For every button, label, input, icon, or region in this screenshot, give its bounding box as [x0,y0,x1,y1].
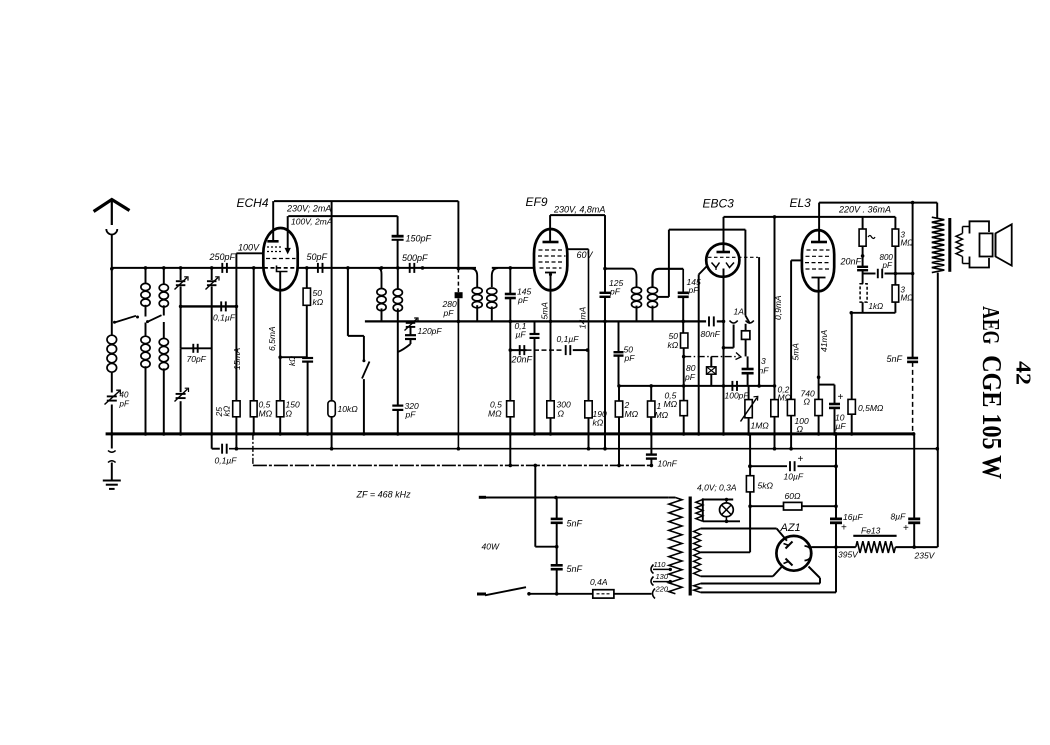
dots second rail [235,447,239,451]
capacitor 125pF IF2 [600,292,611,294]
wire B+ second rail [211,434,213,449]
resistor 5k bleeder [746,476,753,492]
svg-text:0,4A: 0,4A [590,577,608,587]
wire AZ1 heater lead A [701,583,820,585]
wire 150pF lead [397,216,399,236]
IF2 primary bottom lead [636,306,638,322]
resistor 50k AVC [681,333,688,348]
svg-text:5mA: 5mA [791,343,801,361]
wire filter caps mid link [535,546,556,548]
svg-text:Ω: Ω [804,397,811,407]
svg-text:0,5MΩ: 0,5MΩ [858,403,884,413]
wire EF9 anode/IF2 feed with 125pF [604,215,606,293]
svg-text:+: + [903,523,909,534]
svg-text:120pF: 120pF [418,326,443,336]
capacitor 145pF IF2 sec [678,291,689,294]
svg-text:pF: pF [624,353,636,363]
capacitor 120pF [405,334,416,336]
wire IF2 secondary top lead (thick) [653,269,684,287]
capacitor 50pF det [614,351,624,353]
svg-text:nF: nF [759,366,770,376]
svg-text:Ω: Ω [797,424,804,434]
wire AZ1 heater lead B [701,591,836,593]
wire EL3 grid leak 0.5M [851,313,853,400]
wire heater 4V top lead [703,499,733,501]
inductor IF1 secondary [487,288,497,294]
primary taps 110/130/220 [651,565,654,574]
svg-text:42: 42 [1012,361,1036,385]
svg-text:pF: pF [609,287,621,297]
wire AF detector line [619,385,775,387]
wire ECH4 anode supply line 230V [274,200,458,202]
capacitor 10uF PSU [789,461,791,471]
capacitor 10nF [646,453,657,455]
wire oscillator grid (thick) [347,268,349,336]
wire 1M AF resistor [650,386,652,401]
svg-text:CGE 105 W: CGE 105 W [977,355,1007,479]
svg-text:pF: pF [688,285,700,295]
wire IF2 secondary to EBC3 grid [669,229,746,231]
antenna symbol [94,200,130,212]
svg-text:220: 220 [655,584,669,593]
dots ground bus [110,432,114,436]
speaker voice coil winding [956,233,963,256]
svg-text:+: + [841,523,847,534]
speaker cone [996,224,1012,265]
output transformer primary [932,217,945,272]
svg-text:Ω: Ω [286,409,293,419]
svg-text:pF: pF [517,295,529,305]
inductor L3b [159,338,168,345]
wire 5k bleeder branch [749,434,751,476]
capacitor 5nF boucherot [907,357,918,360]
wire 10nF rail cap [650,434,652,455]
wire heater 4V bottom lead [703,520,740,522]
resistor 2M AF grid [615,401,622,417]
svg-text:EL3: EL3 [790,196,812,210]
resistor 740R EL3 cathode [815,399,822,415]
wire EF9 anode supply line [550,214,605,216]
svg-text:100V: 100V [238,243,260,253]
EL3 cathode chain 740R [818,278,820,400]
wire RF coil 2 top [145,268,147,284]
svg-text:41mA: 41mA [819,329,829,352]
resistor 1k tone upper [859,229,866,246]
capacitor 0.1uF AVC [530,333,540,335]
wire ECH4 screen line 100V,2mA [288,215,397,217]
wire RF coil 3 bottom section [163,322,165,338]
capacitor 70pF [192,344,194,353]
wire EF9 screen lead [566,248,589,250]
wire 70pF trimmer line [181,347,212,349]
resistor 3M tone upper [892,229,899,246]
capacitor 145pF IF1 [505,293,516,296]
tube EBC3 [706,244,739,277]
inductor L3a [159,284,168,291]
resistor 0.2M EBC3 anode load [771,400,778,417]
svg-text:kΩ: kΩ [222,405,232,416]
secondary HT winding [694,529,701,577]
tube EF9 [534,229,567,290]
svg-text:1MΩ: 1MΩ [751,421,770,431]
capacitor 5nF mains lower [551,564,563,567]
antenna down lead [111,235,113,269]
wire EF9 AVC cap 0.1uF branch [534,321,536,334]
EBC3 cathode chain [723,269,725,434]
80pF crossed-box capacitor [707,367,717,374]
pickup jack box [742,331,750,340]
svg-text:40: 40 [120,391,129,400]
wire antenna coil branch [111,269,113,335]
svg-text:395V: 395V [838,550,859,560]
capacitor 5nF mains upper [551,518,563,521]
inductor L2a [141,283,150,290]
wire PSU segment with 10uF [750,465,787,467]
capacitor 16uF [830,518,842,521]
svg-text:14mA: 14mA [578,306,588,329]
wire EBC3 diode lead [699,267,707,275]
svg-text:MΩ: MΩ [259,409,273,419]
potentiometer 1M volume [745,400,752,418]
wire EL3 grid-side lead [791,259,803,261]
pickup switch blade [744,230,746,316]
wire oscillator feedback line (thick) [365,320,706,322]
svg-text:80nF: 80nF [701,329,721,339]
capacitor 3nF tone [742,368,754,371]
transformer core [689,497,692,596]
svg-text:Fe13: Fe13 [861,526,881,536]
tube ECH4 [263,228,297,290]
wire EF9 screen dropper 190k [588,350,590,401]
wire EBC3 cathode to switch link [724,347,734,349]
resistor 100R EL3 screen [787,399,794,415]
svg-text:500pF: 500pF [402,253,428,263]
resistor 1M AF [648,401,655,417]
wire output transformer primary return [937,273,939,547]
svg-text:6,5mA: 6,5mA [267,326,277,351]
wire RF coil 3 top [163,268,165,284]
pickup switch contact left [730,321,738,324]
power transformer primary winding [669,498,682,594]
svg-text:0,1µF: 0,1µF [215,456,238,466]
svg-text:ECH4: ECH4 [237,196,269,210]
capacitor 0.1uF screen [565,345,567,355]
wire antenna mixer coupling (thick) [181,305,237,307]
trimmer padder [406,322,416,324]
trimmer capacitor var [176,393,186,395]
capacitor cathode bypass [302,357,313,359]
output transformer core [948,218,951,272]
wire boucherot 5nF branch [912,203,914,358]
wire mains bottom line [477,593,486,596]
wire 100V lead to ECH4 [236,252,264,254]
svg-text:AEG: AEG [977,306,1003,344]
svg-text:+: + [798,454,804,465]
svg-text:+: + [838,392,844,403]
svg-text:150pF: 150pF [406,234,432,244]
tube AZ1 rectifier [776,536,811,571]
svg-text:10nF: 10nF [658,459,678,469]
ECH4 anode lead [272,201,274,241]
pickup switch contact right [746,321,754,324]
svg-text:220V . 36mA: 220V . 36mA [838,205,891,215]
wire 16uF / heater junction branch [835,434,837,519]
svg-text:50pF: 50pF [307,252,328,262]
ECH4 cathode lead [279,272,281,401]
svg-text:1A: 1A [734,307,745,317]
trimmer capacitor T1 [176,280,186,282]
resistor 0.5M AVC [680,401,687,416]
dots PSU [554,496,558,500]
wire tone chain 1k/20nF/1k [862,217,864,229]
wire oscillator anode feed with 10k [331,201,333,401]
wire 3nF tone cap [747,356,749,369]
wire AVC chain 145pF/50k/0.5M [682,297,684,333]
svg-text:10kΩ: 10kΩ [338,404,359,414]
wire EBC3 anode line 220V [724,216,896,218]
resistor 50k [303,288,310,305]
svg-text:4,0V; 0,3A: 4,0V; 0,3A [697,483,737,493]
svg-text:40W: 40W [482,542,500,552]
svg-text:60Ω: 60Ω [785,491,801,501]
svg-text:MΩ: MΩ [901,294,914,303]
capacitor 50pF osc coupling [317,263,319,273]
inductor osc coil A [377,289,386,296]
resistor 0.5M EL3 grid leak [848,399,855,414]
inductor L2b [141,336,150,343]
oscillator wave switch [363,336,365,361]
svg-text:20nF: 20nF [840,257,862,267]
capacitor 8uF [908,518,920,521]
resistor 3M tone lower [892,285,899,302]
fuse 0.4A [593,590,614,598]
secondary 4V heater winding [696,500,703,522]
svg-text:µF: µF [836,421,847,431]
EF9 anode lead up [549,215,551,242]
svg-text:0,9mA: 0,9mA [773,295,783,320]
280pF padding capacitor (solid box) [455,292,463,298]
speaker frame [970,221,990,233]
wire EL3 anode to output transformer [819,202,937,204]
wire osc coil B [397,268,399,289]
capacitor 100pF AF [731,381,733,391]
capacitor 20nF screen [519,345,521,355]
svg-text:5kΩ: 5kΩ [758,481,774,491]
svg-text:5mA: 5mA [540,302,550,320]
volume pot 1M chain [748,386,750,400]
capacitor 0.1uF antenna coupling [220,301,222,311]
svg-text:15mA: 15mA [232,347,242,370]
svg-text:AZ1: AZ1 [780,522,801,534]
wire EL3 screen feed 100R [790,260,792,399]
svg-text:MΩ: MΩ [664,399,678,409]
wire 50k grid resistor branch [306,268,308,288]
resistor 300R EF9 cathode [547,401,554,418]
wire detector 50pF branch [618,321,620,352]
svg-text:250pF: 250pF [209,252,236,262]
capacitor 800pF [877,269,879,279]
band switch S1b [148,315,162,322]
wire IF2 primary top lead [605,268,631,270]
svg-text:ZF = 468 kHz: ZF = 468 kHz [356,490,412,500]
resistor 60R horizontal [784,502,802,510]
svg-text:kΩ: kΩ [288,356,297,366]
dots main junctions [110,267,114,271]
wire 8uF cap branch [913,434,915,519]
wire RF coil 2 bottom section [145,323,147,337]
svg-text:60V: 60V [577,250,594,260]
svg-text:5nF: 5nF [567,519,583,529]
svg-text:EF9: EF9 [526,195,548,209]
svg-text:kΩ: kΩ [313,297,324,307]
capacitor 0.1uF rail decoupling [221,444,223,454]
IF2 secondary bottom lead [652,306,654,322]
svg-text:pF: pF [405,410,417,420]
wire mains top line to transformer [479,496,486,499]
capacitor 500pF [409,263,411,273]
resistor 10k oscillator [328,401,335,417]
svg-text:MΩ: MΩ [625,409,639,419]
svg-text:10µF: 10µF [784,472,804,482]
capacitor 150pF [392,235,404,238]
svg-text:MΩ: MΩ [901,239,914,248]
inductor IF2 primary [632,287,642,293]
resistor 0.5M grid leak [250,401,257,417]
trimmer capacitor 40pF [107,395,117,397]
svg-text:110: 110 [654,560,667,569]
wire trimmer branch 1 [180,268,182,280]
wire HT winding centre tap [701,551,751,553]
svg-text:8µF: 8µF [891,512,907,522]
inductor IF1 primary [472,288,482,294]
capacitor 10uF cathode bypass [829,403,840,406]
svg-text:pF: pF [119,400,130,409]
wire HT winding bottom lead to AZ1 [701,575,773,577]
wire osc coil A [378,268,382,289]
tube EL3 [802,230,834,291]
inductor L1 antenna coil [107,335,117,344]
svg-text:Ω: Ω [558,409,565,419]
ground symbol [103,480,121,482]
svg-text:kΩ: kΩ [668,340,679,350]
svg-text:16µF: 16µF [843,512,863,522]
wire AVC dashed line with arrow [684,356,738,358]
wire filter cap chain 2x5nF [556,498,558,519]
svg-text:5nF: 5nF [887,354,903,364]
ECH4 screen lead [287,216,289,250]
wire EBC3 anode load 0.2M [774,217,776,400]
band switch S1a [115,316,137,323]
wire ECH4 cathode bypass branch [280,356,307,358]
svg-text:EBC3: EBC3 [703,197,735,211]
capacitor 20nF tone [857,266,868,268]
wire 100V screen feed with 25k [235,253,237,400]
svg-text:0,1µF: 0,1µF [557,334,580,344]
svg-text:pF: pF [684,372,696,382]
svg-text:20nF: 20nF [511,355,533,365]
wire ECH4 grid leak [253,268,255,401]
wire tone network bottom node [851,312,895,314]
svg-text:0,1µF: 0,1µF [213,313,236,323]
resistor 190k screen dropper [585,401,592,418]
wire EBC3 grid coupling down [758,257,760,386]
wire tone network 800pF link [863,273,876,275]
wire 395V cathode line [811,546,856,548]
wire earth lead with break [111,434,113,449]
wire main signal line (antenna to EF9 grid) [112,267,264,269]
svg-text:5nF: 5nF [567,564,583,574]
IF1 secondary coil bottom lead [491,306,493,321]
secondary rectifier heater winding [694,584,701,593]
inductor IF2 secondary [648,287,658,293]
inductor osc coil B [393,289,402,296]
resistor 25k [233,401,240,417]
EF9 cathode chain with 300 ohm [550,273,552,401]
svg-text:230V; 2mA: 230V; 2mA [286,204,331,214]
svg-text:3: 3 [761,356,766,366]
svg-text:kΩ: kΩ [593,418,604,428]
wire 60 ohm line [750,505,783,507]
wire 80pF shunt box leads [710,357,712,367]
wire trimmer branch 2 [211,268,213,280]
wire HT winding top lead to AZ1 [701,528,777,530]
IF1 primary coil bottom lead [476,305,478,321]
svg-text:pF: pF [443,308,455,318]
svg-text:70pF: 70pF [187,354,207,364]
svg-text:100V, 2mA: 100V, 2mA [291,217,333,227]
dots third rail [509,464,513,468]
svg-text:230V, 4,8mA: 230V, 4,8mA [553,205,605,215]
svg-text:µF: µF [516,330,527,340]
wire AF grid-leak 2M to third rail [618,386,620,401]
trimmer capacitor T2 [207,280,217,282]
wire EF9 grid cap branch 145pF [509,268,511,294]
ground bus (main, thick) [106,432,915,435]
resistor 1k tone lower (dashed) [860,284,867,302]
svg-text:MΩ: MΩ [655,410,669,420]
EL3 anode lead up [818,203,820,242]
svg-text:130: 130 [656,572,669,581]
svg-text:235V: 235V [914,551,936,561]
wire EF9 screen decoupling line [510,349,526,351]
dial lamp [720,503,734,517]
capacitor 250pF [221,263,223,273]
wire third rail (chassis return) [253,464,652,466]
capacitor 80nF coupling [708,316,710,326]
svg-text:1kΩ: 1kΩ [869,302,884,311]
svg-text:MΩ: MΩ [488,409,502,419]
EBC3 anode lead up [723,217,725,252]
wire IF1 secondary top lead [492,268,498,287]
svg-text:pF: pF [882,261,893,270]
wire ECH4 anode feed right leg / IF1 drive [457,201,459,269]
mains switch [485,587,526,595]
wire IF2 secondary tap to grid line [657,296,669,298]
resistor 150R cathode [277,401,284,417]
wire IF1 primary top lead [458,269,477,287]
resistor 0.5M EF9 grid [507,401,514,417]
capacitor 320pF [392,405,403,407]
wire padder chain [410,321,412,322]
field coil Fe choke [856,541,896,553]
speaker magnet [980,233,993,256]
wire EL3 cathode bypass 10uF branch [819,384,835,386]
wire tone chain 3M/3M [894,217,896,229]
